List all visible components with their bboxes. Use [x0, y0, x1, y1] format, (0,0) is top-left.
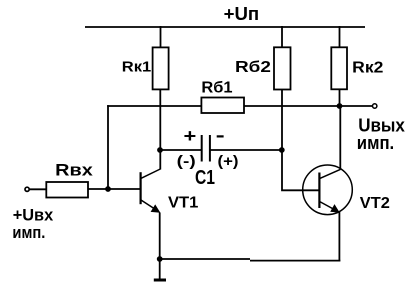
transistor VT2 envelope circle	[303, 165, 353, 215]
transistor VT1 emitter lead with arrow	[141, 200, 161, 213]
wire VT2 collector up	[339, 106, 341, 170]
svg-text:C1: C1	[195, 167, 215, 189]
junction C1 / Rб2 / VT2 base	[279, 147, 285, 153]
wire collector node to C1 left	[160, 149, 202, 151]
ground bar	[154, 279, 166, 282]
svg-text:имп.: имп.	[357, 133, 394, 153]
wire C1 right to Rб2 branch	[210, 149, 282, 151]
wire input terminal to Rвх	[29, 188, 46, 190]
wire rail to Rк2	[339, 26, 341, 47]
svg-text:+Uп: +Uп	[224, 4, 260, 24]
transistor VT2 base bar	[318, 173, 320, 209]
capacitor C1 right plate	[209, 135, 211, 162]
input terminal	[25, 187, 29, 191]
wire Rб2 bottom to VT2 base corner	[282, 90, 319, 191]
output terminal	[373, 104, 377, 108]
svg-text:VT2: VT2	[360, 195, 390, 212]
power rail +Up wire	[85, 26, 365, 28]
wire mid horizontal left (feedback to Rб1)	[107, 105, 201, 107]
resistor Rб2	[274, 47, 291, 89]
junction VT1 emitter / ground	[157, 256, 163, 262]
svg-text:(-): (-)	[177, 153, 196, 170]
transistor VT1 base bar	[140, 172, 142, 204]
resistor Rвх	[46, 182, 88, 198]
wire Rк1 bottom to VT1 collector node	[159, 89, 161, 169]
svg-text:+Uвх: +Uвх	[13, 206, 54, 225]
svg-text:VT1: VT1	[168, 195, 199, 212]
wire bottom emitter bus right segment	[250, 260, 340, 262]
svg-text:(+): (+)	[218, 153, 239, 170]
wire Rк2 bottom to output node	[339, 89, 341, 106]
wire rail to Rk1	[160, 26, 162, 47]
wire Rб1 to output node	[244, 105, 372, 107]
svg-text:Rб1: Rб1	[201, 80, 232, 97]
transistor VT1 collector lead	[141, 169, 161, 179]
wire Rвх to VT1 base	[88, 188, 141, 190]
transistor VT2 emitter lead with arrow	[320, 202, 340, 213]
junction input / feedback / base VT1	[105, 186, 111, 192]
svg-text:Rб2: Rб2	[235, 59, 271, 76]
resistor Rк2	[331, 47, 347, 89]
capacitor C1 left plate	[201, 135, 203, 162]
svg-text:+: +	[184, 126, 197, 146]
svg-text:Rк2: Rк2	[352, 60, 383, 77]
svg-text:имп.: имп.	[12, 223, 45, 242]
junction VT1 collector / C1	[157, 147, 163, 153]
wire feedback vertical	[107, 105, 109, 189]
transistor VT2 collector lead	[320, 169, 341, 178]
svg-text:-: -	[216, 125, 225, 145]
ground lead	[159, 259, 161, 280]
wire VT2 emitter down	[338, 212, 340, 262]
resistor Rб1	[201, 98, 244, 114]
svg-text:Rк1: Rк1	[122, 58, 151, 75]
wire rail to Rб2	[281, 26, 283, 47]
wire VT1 emitter down	[159, 213, 161, 260]
wire bottom emitter bus left segment	[160, 258, 250, 260]
resistor Rк1	[153, 47, 169, 89]
junction collector VT2 / Rк2 / output	[337, 103, 343, 109]
svg-text:Rвх: Rвх	[55, 160, 93, 179]
